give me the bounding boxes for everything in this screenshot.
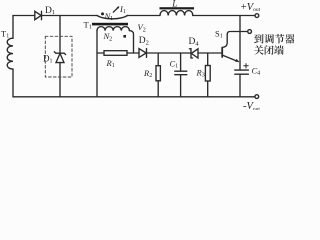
wire top rail after D1 — [42, 15, 98, 17]
wire R1 to D2 — [127, 52, 139, 54]
svg-text:I1: I1 — [119, 4, 126, 15]
terminal +Vout circle — [255, 14, 259, 18]
text char 节 — [275, 34, 285, 44]
svg-text:R2: R2 — [143, 68, 152, 79]
wire left vertical (input) — [12, 16, 14, 39]
wire from leg to R1 — [97, 52, 104, 54]
diode D2 — [139, 49, 147, 58]
svg-text:D2: D2 — [139, 36, 149, 46]
text char 调 — [264, 34, 274, 43]
winding N1 (primary arc dip in top rail) — [97, 16, 128, 19]
svg-text:T1: T1 — [84, 20, 92, 31]
text char 器 — [285, 34, 295, 43]
wire C1 to bottom rail — [180, 75, 182, 97]
wire base drive elbow to terminal — [222, 32, 247, 48]
svg-text:V2: V2 — [138, 22, 146, 33]
capacitor C4 — [235, 70, 249, 74]
svg-text:D1: D1 — [43, 54, 53, 65]
wire top rail right — [193, 15, 255, 17]
winding N2 (secondary) — [97, 27, 129, 31]
svg-text:L: L — [171, 0, 177, 8]
terminal circle (to regulator) — [248, 30, 252, 34]
svg-text:-Vout: -Vout — [243, 101, 260, 110]
svg-text:+Vout: +Vout — [241, 2, 261, 13]
wire R3 branch — [207, 53, 209, 66]
text char 闭 — [265, 45, 274, 55]
wire R2 branch — [157, 53, 159, 66]
transistor S1 base bar — [221, 48, 223, 58]
inductor L winding — [160, 11, 193, 16]
node dot N1 polarity — [101, 12, 104, 15]
wire top rail mid — [128, 15, 161, 17]
transistor S1 emitter — [223, 55, 239, 61]
svg-text:N2: N2 — [103, 31, 113, 42]
svg-text:D1: D1 — [45, 6, 55, 16]
node dot N2 polarity — [123, 35, 126, 38]
text char 关 — [254, 45, 264, 54]
svg-text:R3: R3 — [196, 68, 205, 79]
svg-text:D4: D4 — [189, 37, 200, 47]
diode D1 — [35, 11, 42, 19]
resistor R1 — [104, 51, 127, 56]
zener diode D1z — [54, 52, 65, 63]
resistor R2 — [156, 66, 160, 81]
svg-text:C1: C1 — [170, 59, 179, 70]
resistor R3 — [205, 66, 210, 82]
wire zener branch vertical — [59, 16, 61, 54]
svg-text:T1: T1 — [1, 29, 9, 40]
wire zener to bottom rail — [59, 63, 61, 97]
wire C4 to bottom rail — [239, 74, 241, 97]
wire left vertical lower — [12, 69, 14, 97]
diode D4 (points left) — [189, 49, 198, 58]
wire R2 to bottom rail — [157, 81, 159, 97]
text char 端 — [274, 45, 284, 54]
wire R3 to bottom rail — [207, 81, 209, 97]
wire D4 to base — [198, 52, 222, 54]
terminal -Vout circle — [255, 95, 259, 99]
wire top rail left segment — [13, 15, 35, 17]
wire D2 to D4 — [147, 52, 191, 54]
capacitor C4 plus sign — [244, 64, 248, 68]
wire C1 branch — [180, 53, 182, 71]
svg-text:N1: N1 — [104, 11, 114, 22]
svg-text:R1: R1 — [106, 58, 115, 69]
svg-text:S1: S1 — [215, 29, 223, 40]
capacitor C1 — [175, 71, 187, 75]
dashed clamp box — [45, 36, 72, 77]
transformer T1 core bar — [92, 23, 128, 26]
svg-text:C4: C4 — [252, 66, 261, 77]
wire N2 right end to leg — [129, 31, 133, 53]
inductor L core bar — [160, 7, 195, 9]
transformer T1 left winding — [7, 38, 13, 69]
wire collector-emitter vertical — [239, 16, 241, 71]
wire T1 left leg — [96, 31, 98, 97]
text char 到 — [254, 34, 263, 43]
wire bottom rail — [13, 96, 255, 98]
